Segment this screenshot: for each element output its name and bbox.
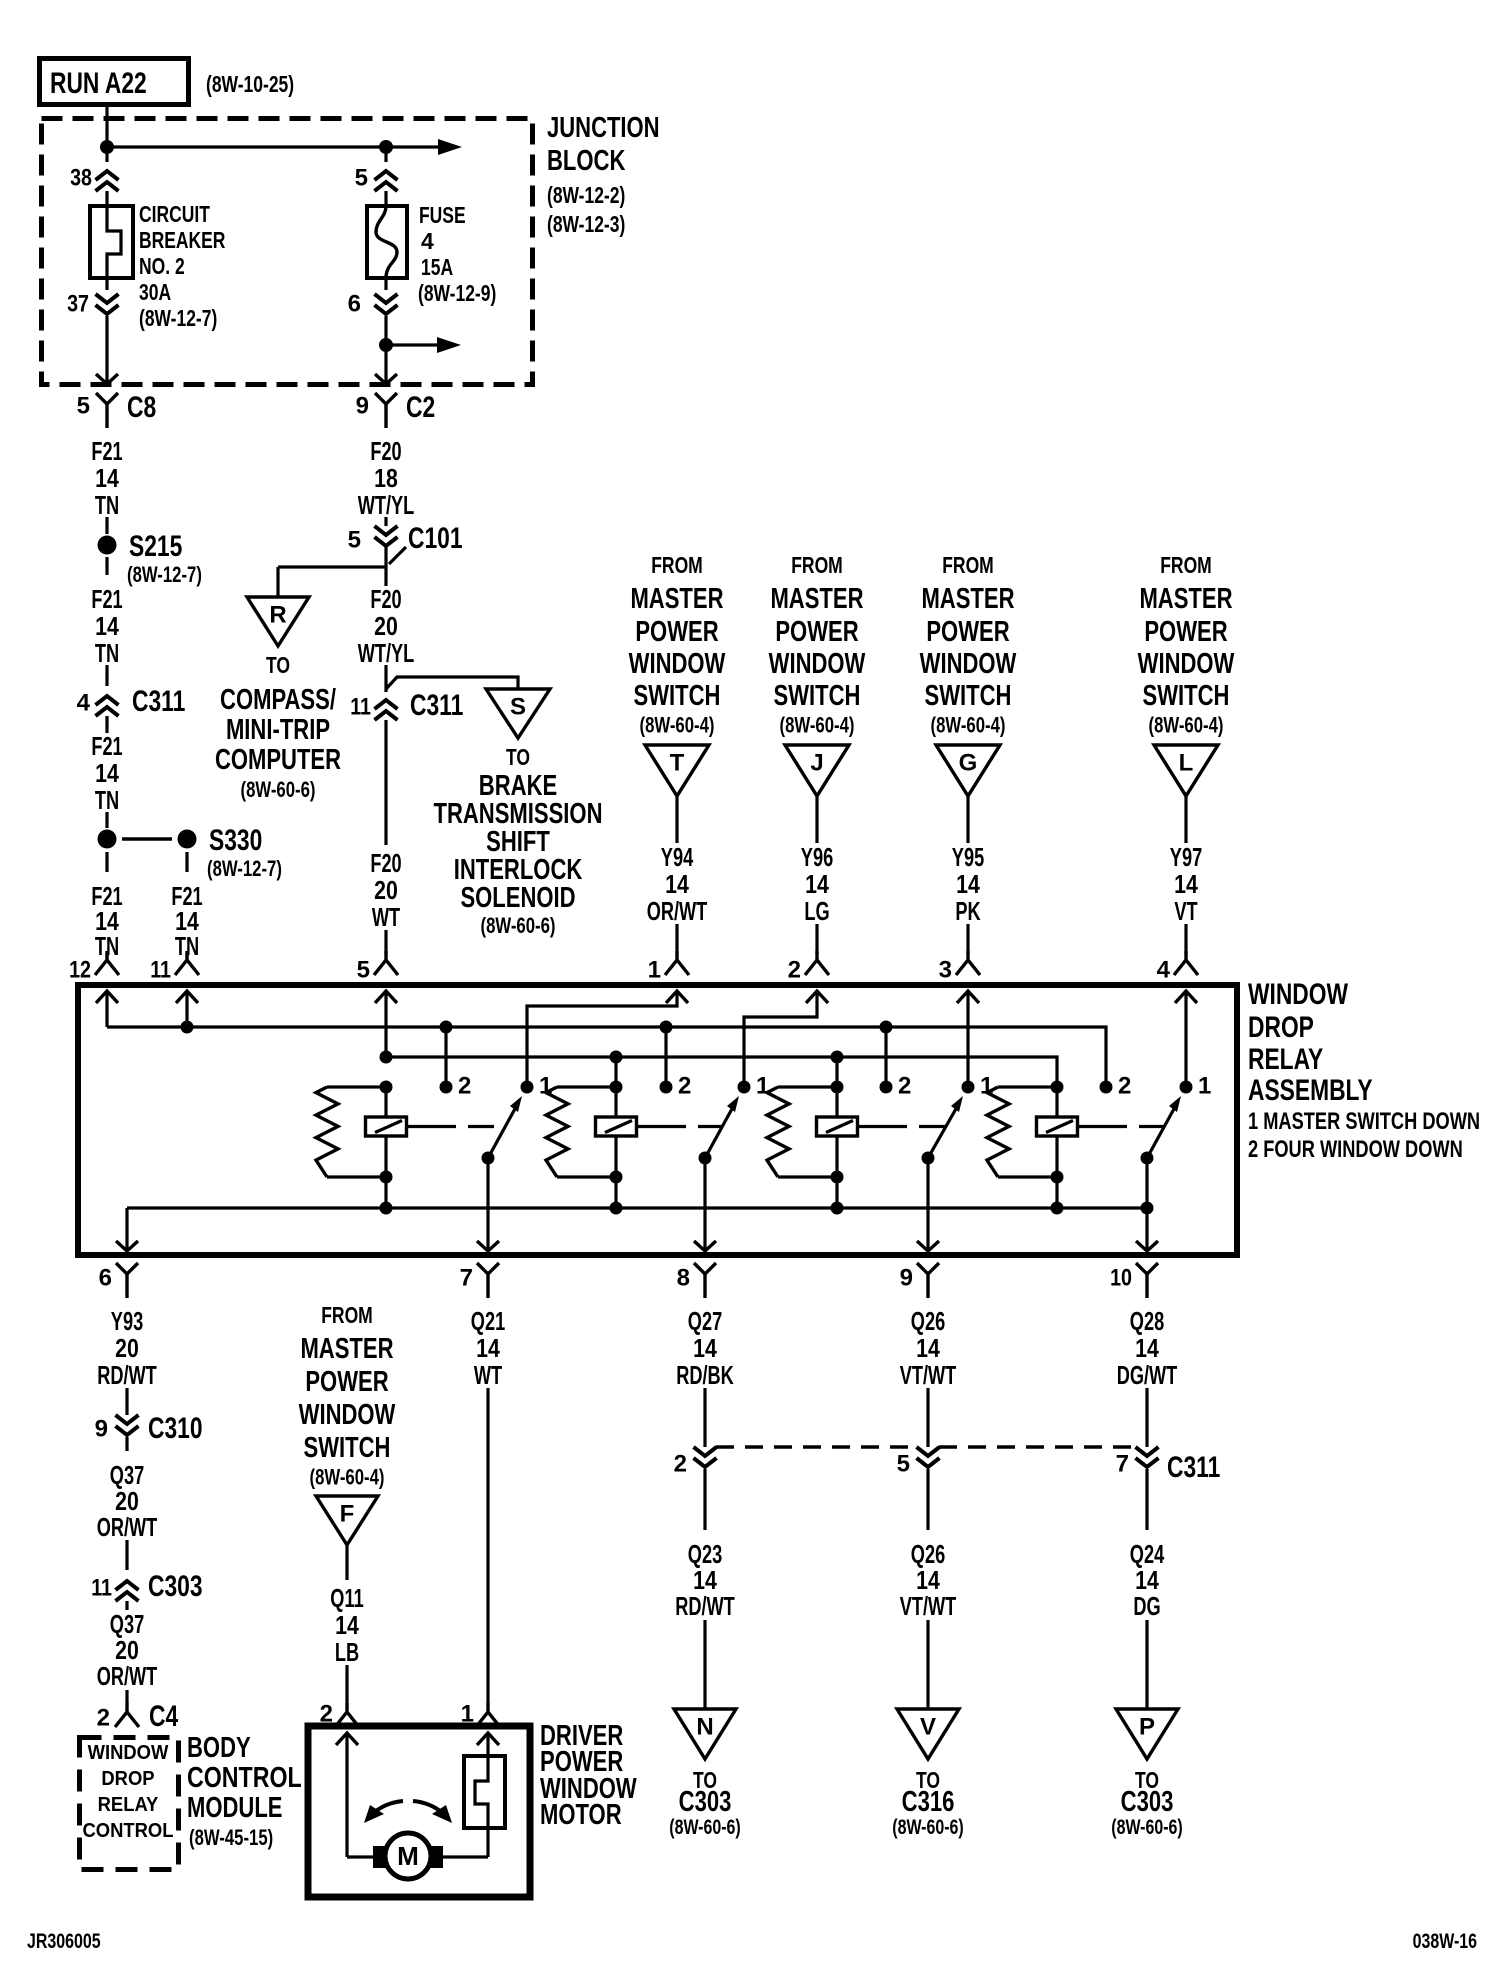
svg-text:F20: F20 [370,848,401,878]
svg-text:F20: F20 [370,436,401,466]
svg-text:C311: C311 [132,685,185,718]
pin 12 wire to bus [105,991,108,1027]
svg-text:COMPASS/: COMPASS/ [220,684,336,716]
motor pin 1 entry arrow [477,1733,499,1756]
svg-text:11: 11 [150,956,171,983]
wire F20 20 WT/YL [358,584,415,692]
motor M [347,1833,488,1879]
wire F20 20 WT to pin 5 [370,720,401,954]
svg-text:(8W-60-6): (8W-60-6) [892,1816,964,1839]
wire and branch to compass computer [278,546,386,597]
junction pin 11 on bus [181,1021,194,1034]
svg-text:10: 10 [1110,1264,1132,1291]
svg-text:Q28: Q28 [1130,1306,1164,1336]
relay 3 contact 2 terminal [880,1072,912,1099]
svg-text:(8W-60-6): (8W-60-6) [669,1816,741,1839]
svg-text:38: 38 [70,164,92,191]
svg-text:WINDOW: WINDOW [1248,978,1349,1011]
relay 1 contact 1 terminal [521,1072,553,1099]
svg-text:MODULE: MODULE [187,1792,283,1824]
tap node [379,338,393,352]
svg-text:POWER: POWER [1144,616,1227,648]
reference (8W-10-25) [206,71,294,97]
relay 4 coil [1037,1081,1078,1215]
svg-text:(8W-12-7): (8W-12-7) [139,305,217,331]
window drop relay assembly box [78,985,1237,1255]
svg-text:20: 20 [374,611,398,641]
bus wire from RUN A22 feed [107,107,462,162]
svg-text:WINDOW: WINDOW [769,648,866,680]
svg-text:C316: C316 [902,1786,955,1818]
wire Q37 20 OR/WT (lower) [97,1601,158,1704]
coil bus (master switch down feed) [386,1057,1057,1087]
svg-text:Q27: Q27 [688,1306,722,1336]
svg-text:SWITCH: SWITCH [304,1432,391,1464]
relay 2 contact 2 stub [660,1021,673,1088]
relay box pin 4 connector (top) [1157,951,1198,1003]
svg-text:WINDOW: WINDOW [629,648,726,680]
svg-text:038W-16: 038W-16 [1413,1930,1477,1953]
branch to brake transmission shift interlock solenoid [386,677,518,689]
svg-text:V: V [920,1713,936,1740]
svg-text:(8W-60-6): (8W-60-6) [1111,1816,1183,1839]
svg-text:FROM: FROM [942,552,994,578]
svg-text:2: 2 [458,1072,471,1099]
svg-text:S215: S215 [129,530,182,563]
relay box pin 5 connector (top) [357,951,398,1003]
svg-text:(8W-60-6): (8W-60-6) [241,777,316,802]
svg-text:JUNCTION: JUNCTION [547,112,660,144]
to C303 label [669,1767,741,1839]
svg-text:(8W-60-4): (8W-60-4) [1149,713,1224,738]
relay 2 contact 2 terminal [660,1072,692,1099]
relay 2 contact 1 terminal [738,1072,770,1099]
relay box pin 9 connector (bottom) [900,1263,939,1298]
svg-text:(8W-10-25): (8W-10-25) [206,71,294,97]
pin 5 connector (fuse) [355,164,398,191]
triangle connector P [1116,1709,1178,1759]
junction pin 5 on coil bus [380,1051,393,1064]
svg-text:FROM: FROM [651,552,703,578]
wire below fuse with tap [386,316,437,383]
motor pin 2 connector [320,1700,359,1727]
triangle connector G [936,745,1000,796]
relay 3 coil feed stub [831,1051,844,1088]
wire Y97 14 VT [1170,796,1202,954]
fuse 4 (15A) [367,191,407,290]
svg-text:C311: C311 [410,689,463,722]
svg-text:4: 4 [1157,956,1171,983]
relay 3 actuating dash link [858,1125,947,1128]
svg-text:DG: DG [1133,1591,1160,1621]
svg-text:1 MASTER SWITCH DOWN: 1 MASTER SWITCH DOWN [1248,1108,1480,1135]
svg-text:TO: TO [266,652,290,678]
rotation arrows [364,1801,452,1823]
relay box pin 8 connector (bottom) [677,1263,716,1298]
motor pin 1 connector [461,1700,500,1727]
relay box pin 2 connector (top) [788,951,829,1003]
pin 1 wire to relay 1 contact [527,991,677,1087]
relay 4 switch arm [1141,1096,1182,1165]
svg-text:WINDOW: WINDOW [88,1742,169,1764]
svg-text:SOLENOID: SOLENOID [460,882,575,914]
window drop relay assembly label [1248,978,1480,1163]
relay 2 coil feed stub [610,1051,623,1088]
svg-text:RELAY: RELAY [1248,1043,1323,1076]
svg-text:Q26: Q26 [911,1306,945,1336]
svg-text:MASTER: MASTER [921,583,1014,615]
svg-text:FUSE: FUSE [419,202,466,228]
svg-text:DROP: DROP [101,1768,154,1790]
svg-text:POWER: POWER [775,616,858,648]
svg-text:CONTROL: CONTROL [187,1762,302,1794]
svg-text:Y95: Y95 [952,842,984,872]
svg-text:RUN A22: RUN A22 [50,67,147,100]
triangle connector T [645,745,709,796]
pin 6 connector (fuse) [348,290,398,317]
connector C310 pin 9 [95,1412,203,1451]
svg-text:Y97: Y97 [1170,842,1202,872]
connector C8 [77,391,157,428]
pin 11 wire to bus [185,991,188,1027]
connector C311 pin 2 [674,1447,717,1530]
relay 4 contact 2 terminal [1100,1072,1132,1099]
svg-text:RD/WT: RD/WT [675,1591,735,1621]
svg-text:VT: VT [1174,896,1197,926]
svg-text:FROM: FROM [321,1302,373,1328]
junction block label [547,112,660,237]
svg-text:F21: F21 [91,584,122,614]
relay 4 contact 1 terminal [1180,1072,1212,1099]
svg-text:G: G [959,749,978,776]
node at circuit breaker feed [100,140,114,154]
wire Q21 14 WT from pin 7 [471,1306,505,1704]
relay 3 resistor [767,1087,837,1177]
svg-text:WT/YL: WT/YL [358,490,415,520]
svg-text:MINI-TRIP: MINI-TRIP [226,714,330,746]
svg-text:C310: C310 [148,1412,203,1445]
relay 1 contact 2 terminal [440,1072,472,1099]
svg-text:BODY: BODY [187,1732,251,1764]
svg-text:TN: TN [95,490,119,520]
triangle connector F [316,1496,378,1545]
svg-text:TN: TN [95,638,119,668]
title box RUN A22 [40,59,189,105]
relay 4 switch output wire to pin 10 [1136,1158,1158,1251]
svg-text:(8W-60-4): (8W-60-4) [640,713,715,738]
connector C311 pin 11 [350,689,463,722]
wire Q26 VT/WT [900,1539,957,1709]
svg-text:2: 2 [674,1450,687,1477]
circuit breaker no. 2 (30A) [90,191,133,290]
driver power window motor box [308,1726,530,1897]
svg-text:OR/WT: OR/WT [97,1512,158,1542]
coil return bus to pin 6 [127,1208,1147,1251]
motor thermal breaker [464,1756,505,1857]
relay box pin 6 connector (bottom) [99,1263,138,1298]
svg-text:5: 5 [348,526,361,553]
wire F21 14 TN (segment 1) [91,436,122,534]
triangle connector L [1154,745,1218,796]
wire F21 14 TN (segment 2) [91,557,122,686]
svg-text:L: L [1179,749,1194,776]
svg-text:WINDOW: WINDOW [299,1399,396,1431]
relay box pin 3 connector (top) [939,951,980,1003]
svg-text:BREAKER: BREAKER [139,227,226,253]
svg-text:C303: C303 [148,1570,203,1603]
connector C4 pin 2 [97,1700,179,1733]
triangle connector R [247,597,309,646]
svg-text:4: 4 [421,228,434,254]
body control module label [187,1732,302,1850]
svg-text:2 FOUR WINDOW DOWN: 2 FOUR WINDOW DOWN [1248,1136,1463,1163]
relay 2 actuating dash link [637,1125,723,1128]
relay box pin 10 connector (bottom) [1110,1263,1158,1298]
pin 2 wire to relay 2 contact [744,991,817,1087]
wire Y96 14 LG [801,796,833,954]
svg-text:C303: C303 [1121,1786,1174,1818]
svg-text:PK: PK [955,896,980,926]
wire Q23 RD/WT [675,1539,735,1709]
pin 5 wire to coil bus [384,991,387,1057]
svg-text:COMPUTER: COMPUTER [215,744,341,776]
svg-text:3: 3 [939,956,952,983]
pin 4 wire to relay 4 contact [1184,991,1187,1087]
svg-text:S: S [510,693,526,720]
svg-text:Q11: Q11 [330,1583,363,1613]
svg-text:9: 9 [356,392,369,419]
exit arrow at junction block edge (C8) [96,374,118,384]
svg-text:C101: C101 [408,522,463,555]
svg-text:5: 5 [897,1450,910,1477]
relay 3 contact 1 terminal [962,1072,994,1099]
relay box pin 11 connector (top) [150,951,199,1003]
svg-text:15A: 15A [421,254,453,280]
svg-text:(8W-45-15): (8W-45-15) [189,1825,273,1850]
svg-text:6: 6 [99,1264,112,1291]
svg-text:20: 20 [374,875,398,905]
svg-text:14: 14 [335,1610,359,1640]
svg-text:TN: TN [95,785,119,815]
relay 1 contact 2 stub [440,1021,453,1088]
svg-text:DG/WT: DG/WT [1117,1360,1178,1390]
svg-text:14: 14 [1174,869,1198,899]
from master power window switch label (T) [629,552,726,738]
svg-text:WINDOW: WINDOW [1138,648,1235,680]
svg-text:7: 7 [1116,1450,1129,1477]
svg-text:(8W-12-7): (8W-12-7) [127,562,202,587]
svg-text:N: N [696,1713,713,1740]
connector C2 [356,391,436,428]
connector C311 pin 4 [77,685,186,718]
svg-text:14: 14 [95,463,119,493]
splice S330 [98,824,282,881]
svg-text:BLOCK: BLOCK [547,145,625,177]
svg-text:C8: C8 [127,391,156,424]
pin 3 wire to relay 3 contact [966,991,969,1087]
svg-text:C4: C4 [149,1700,178,1733]
connector C311 pin 5 [897,1447,940,1530]
svg-text:P: P [1139,1713,1155,1740]
triangle connector V [897,1709,959,1759]
wire Q26 VT/WT [900,1306,957,1447]
svg-text:MOTOR: MOTOR [540,1799,622,1831]
svg-text:Y94: Y94 [661,842,694,872]
svg-text:5: 5 [77,392,90,419]
relay 4 resistor [987,1087,1057,1177]
triangle connector J [785,745,849,796]
svg-text:RD/BK: RD/BK [676,1360,734,1390]
svg-text:C303: C303 [679,1786,732,1818]
pin 38 connector [70,164,118,191]
svg-text:F20: F20 [370,584,401,614]
compass/mini-trip computer label [215,652,341,802]
relay 3 switch arm [922,1096,964,1165]
svg-text:VT/WT: VT/WT [900,1591,957,1621]
svg-text:18: 18 [374,463,398,493]
svg-text:POWER: POWER [635,616,718,648]
connector C303 pin 11 [91,1570,202,1603]
svg-text:OR/WT: OR/WT [97,1661,158,1691]
svg-text:T: T [670,749,685,776]
svg-text:2: 2 [788,956,801,983]
svg-text:(8W-60-4): (8W-60-4) [931,713,1006,738]
relay 2 switch output wire to pin 8 [694,1158,716,1251]
footer drawing number [1413,1930,1477,1953]
svg-text:WT/YL: WT/YL [358,638,415,668]
svg-text:POWER: POWER [305,1366,388,1398]
svg-text:14: 14 [476,1333,500,1363]
triangle connector S [486,689,550,738]
wire F20 18 WT/YL below C2 [358,436,415,526]
svg-text:20: 20 [115,1333,139,1363]
svg-text:WT: WT [372,902,400,932]
junction block dashed boundary [42,119,533,385]
svg-text:30A: 30A [139,279,171,305]
relay 3 switch output wire to pin 9 [917,1158,939,1251]
svg-text:8: 8 [677,1264,690,1291]
svg-text:14: 14 [1135,1333,1159,1363]
relay box pin 12 connector (top) [69,951,119,1003]
svg-text:LG: LG [804,896,829,926]
svg-text:LB: LB [335,1637,359,1667]
relay 2 coil [596,1081,637,1215]
svg-text:SWITCH: SWITCH [774,680,861,712]
svg-text:C311: C311 [1167,1451,1220,1484]
tap arrow [437,337,461,353]
svg-text:14: 14 [805,869,829,899]
relay 2 switch arm [699,1096,740,1165]
svg-text:12: 12 [69,956,91,983]
window drop relay control label [83,1742,174,1842]
svg-text:SWITCH: SWITCH [925,680,1012,712]
relay 2 resistor [546,1087,616,1177]
triangle connector N [674,1709,736,1759]
svg-text:2: 2 [97,1704,110,1731]
wire Q27 RD/BK [676,1306,734,1447]
svg-text:F21: F21 [91,731,122,761]
wire Q24 DG [1130,1539,1165,1709]
wire Y94 14 OR/WT [647,796,708,954]
svg-text:RD/WT: RD/WT [97,1360,157,1390]
fuse feed wire [384,147,387,162]
svg-text:1: 1 [1198,1072,1211,1099]
svg-text:MASTER: MASTER [300,1333,393,1365]
splice S215 [98,530,202,587]
pin 37 connector [67,290,118,317]
svg-text:MASTER: MASTER [1139,583,1232,615]
svg-text:14: 14 [95,758,119,788]
footer sheet number [27,1930,101,1953]
svg-text:OR/WT: OR/WT [647,896,708,926]
svg-text:37: 37 [67,290,89,317]
dashed link at C311 (pins 2,5,7) [716,1445,1136,1448]
pin 6 exit arrow [116,1241,138,1251]
svg-text:2: 2 [678,1072,691,1099]
svg-text:14: 14 [665,869,689,899]
svg-text:1: 1 [756,1072,769,1099]
svg-text:5: 5 [355,164,368,191]
wire Y95 14 PK [952,796,984,954]
svg-text:POWER: POWER [926,616,1009,648]
node at fuse feed [379,140,393,154]
svg-text:J: J [810,749,823,776]
svg-text:9: 9 [95,1415,108,1442]
svg-text:F: F [340,1500,355,1527]
relay box pin 7 connector (bottom) [460,1263,499,1298]
svg-text:14: 14 [956,869,980,899]
svg-text:5: 5 [357,956,370,983]
coil return bus junction at relay 4 output [1141,1202,1154,1215]
wire F21 14 TN to pin 12 [91,852,122,961]
from master power window switch label (G) [920,552,1017,738]
svg-text:9: 9 [900,1264,913,1291]
from master power window switch label (J) [769,552,866,738]
svg-text:FROM: FROM [1160,552,1212,578]
wire to junction block exit [105,316,108,383]
svg-text:Y93: Y93 [111,1306,143,1336]
svg-text:11: 11 [91,1574,112,1601]
connector C311 pin 7 [1116,1447,1159,1530]
svg-text:4: 4 [77,689,91,716]
svg-text:R: R [269,601,286,628]
fuse label [418,202,496,306]
contact bus (four window down) [107,1027,1106,1087]
svg-text:S330: S330 [209,824,262,857]
svg-text:(8W-12-3): (8W-12-3) [547,211,625,237]
wire Q37 20 OR/WT (upper) [97,1460,158,1570]
svg-text:MASTER: MASTER [770,583,863,615]
relay 3 contact 2 stub [880,1021,893,1088]
svg-text:14: 14 [916,1333,940,1363]
motor pin 2 entry arrow [336,1733,358,1857]
svg-text:SWITCH: SWITCH [1143,680,1230,712]
svg-text:DROP: DROP [1248,1011,1314,1044]
connector C101 pin 5 [348,522,463,564]
svg-text:CONTROL: CONTROL [83,1820,174,1842]
svg-text:ASSEMBLY: ASSEMBLY [1248,1074,1373,1107]
svg-text:11: 11 [350,693,371,720]
svg-text:(8W-60-6): (8W-60-6) [481,913,556,938]
driver power window motor label [540,1720,637,1831]
from master power window switch label (F) [299,1302,396,1490]
to C303 label [1111,1767,1183,1839]
svg-text:14: 14 [693,1333,717,1363]
relay box pin 1 connector (top) [648,951,689,1003]
svg-text:14: 14 [95,611,119,641]
svg-text:TO: TO [506,744,530,770]
wire F21 14 TN (segment 3) [91,716,122,828]
